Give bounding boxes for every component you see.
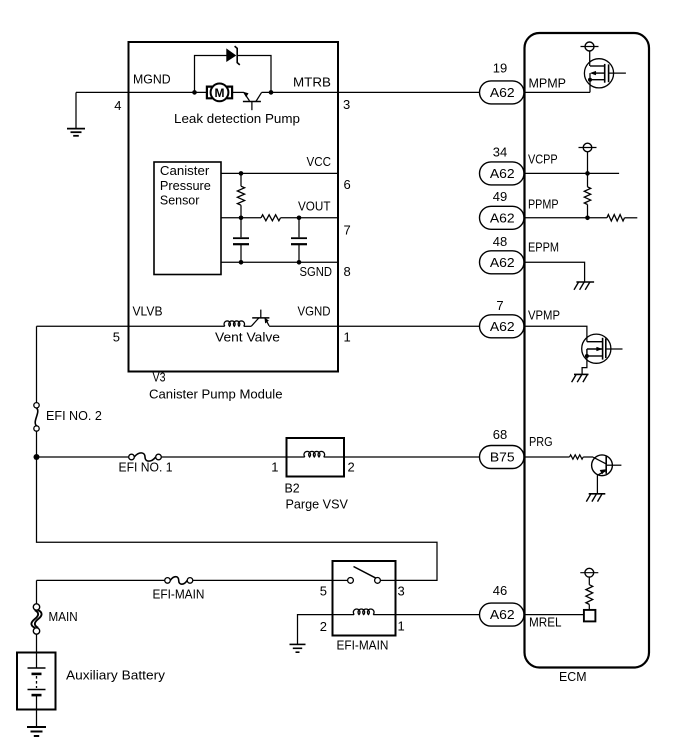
- svg-text:6: 6: [344, 177, 351, 192]
- wire MPMP inside: [525, 80, 591, 93]
- wire down to relay link: [37, 457, 438, 580]
- svg-text:49: 49: [493, 189, 507, 204]
- svg-text:46: 46: [493, 583, 507, 598]
- MOSFET Q3 (N-channel, VPMP): [582, 334, 623, 363]
- svg-text:EPPM: EPPM: [528, 240, 559, 255]
- label SGND: [300, 264, 333, 279]
- transistor Q4 (PRG driver): [592, 455, 622, 494]
- resistor R3 (VCPP pull-up): [584, 173, 590, 217]
- node VCC-R1: [239, 171, 244, 176]
- node SGND-C1: [239, 260, 244, 265]
- node motor left: [192, 90, 197, 95]
- svg-text:1: 1: [398, 619, 405, 634]
- svg-text:Leak detection Pump: Leak detection Pump: [174, 111, 300, 126]
- pin 49: [493, 189, 507, 204]
- pin 46: [493, 583, 507, 598]
- transistor Q1 (pump driver): [232, 92, 262, 110]
- label Auxiliary Battery: [66, 668, 166, 683]
- connector A62 pin 49 (PPMP): [480, 206, 525, 229]
- capacitor C1: [233, 218, 249, 262]
- svg-text:VLVB: VLVB: [133, 304, 163, 319]
- power supply (VCPP): [579, 143, 597, 173]
- power supply (MPMP): [581, 42, 599, 66]
- svg-text:VCPP: VCPP: [528, 152, 558, 167]
- pin 7 (V3 VOUT): [344, 223, 351, 238]
- svg-text:MPMP: MPMP: [529, 76, 567, 91]
- wire battery to EFI-MAIN fuse: [37, 579, 165, 581]
- svg-text:VOUT: VOUT: [298, 199, 331, 214]
- svg-text:A62: A62: [490, 85, 515, 100]
- svg-text:VCC: VCC: [307, 154, 332, 169]
- connector A62 pin 7 (VPMP): [480, 315, 525, 338]
- label EPPM: [528, 240, 559, 255]
- label EFI NO. 2: [46, 408, 102, 423]
- wire VLVB drop: [36, 326, 38, 402]
- svg-text:VPMP: VPMP: [528, 308, 560, 323]
- pin 68: [493, 427, 507, 442]
- svg-text:A62: A62: [490, 607, 515, 622]
- MOSFET Q2 (P-channel, MPMP): [584, 59, 626, 88]
- wire relay coil to ground: [298, 615, 333, 645]
- svg-text:MREL: MREL: [529, 615, 562, 630]
- label EFI-MAIN (fuse): [153, 587, 205, 602]
- label VLVB: [133, 304, 163, 319]
- svg-text:Auxiliary Battery: Auxiliary Battery: [66, 668, 166, 683]
- svg-text:A62: A62: [490, 255, 515, 270]
- wire SGND: [221, 261, 338, 263]
- svg-text:PRG: PRG: [529, 434, 553, 449]
- svg-text:EFI-MAIN: EFI-MAIN: [337, 638, 389, 653]
- battery cells: [28, 653, 46, 728]
- label MTRB: [293, 75, 331, 90]
- svg-text:PPMP: PPMP: [528, 197, 559, 212]
- connector A62 pin 19 (MPMP): [480, 81, 525, 104]
- wire PRG base: [583, 456, 593, 458]
- node VOUT-right: [297, 216, 302, 221]
- ground (VPMP): [572, 374, 589, 382]
- wire EPPM inside: [525, 262, 585, 282]
- wire PRG to VSV: [161, 456, 286, 458]
- svg-text:MAIN: MAIN: [49, 609, 78, 624]
- pin 2 (relay): [320, 619, 327, 634]
- pin 1 (B2): [271, 460, 278, 475]
- svg-text:EFI NO. 2: EFI NO. 2: [46, 408, 102, 423]
- svg-text:Pressure: Pressure: [160, 178, 211, 193]
- node PPMP: [585, 216, 590, 221]
- svg-text:19: 19: [493, 61, 507, 76]
- svg-text:SGND: SGND: [300, 264, 333, 279]
- label VPMP: [528, 308, 560, 323]
- wire PRG inside: [525, 456, 570, 458]
- battery box Auxiliary Battery: [17, 653, 56, 710]
- wire VOUT (sensor side): [221, 217, 261, 219]
- vent valve contact: [251, 310, 269, 327]
- svg-text:ECM: ECM: [559, 669, 587, 684]
- label MGND: [133, 72, 171, 87]
- label V3: [153, 370, 166, 385]
- svg-text:EFI NO. 1: EFI NO. 1: [119, 460, 173, 475]
- label EFI NO. 1: [119, 460, 173, 475]
- label Parge VSV: [286, 497, 349, 512]
- connector B75 pin 68 (PRG): [480, 446, 525, 469]
- pin 3 (relay): [398, 584, 405, 599]
- svg-text:A62: A62: [490, 319, 515, 334]
- svg-text:Parge VSV: Parge VSV: [286, 497, 349, 512]
- connector A62 pin 48 (EPPM): [480, 251, 525, 274]
- pin 5 (relay): [320, 584, 327, 599]
- ground (battery): [27, 727, 46, 736]
- pin 5 (V3 VLVB): [113, 330, 120, 345]
- svg-text:MGND: MGND: [133, 72, 171, 87]
- svg-text:4: 4: [114, 98, 121, 113]
- wire fuse to PRG node: [36, 431, 38, 457]
- wire PRG (left): [37, 456, 129, 458]
- wire VPMP source to ground: [582, 356, 587, 374]
- wire PPMP stub: [625, 217, 638, 219]
- fuse EFI NO. 2: [34, 403, 39, 432]
- label B2: [285, 481, 300, 496]
- label PPMP: [528, 197, 559, 212]
- sensor box Canister Pressure Sensor: [154, 162, 221, 275]
- svg-text:A62: A62: [490, 166, 515, 181]
- node PRG junction: [34, 454, 40, 460]
- svg-text:2: 2: [320, 619, 327, 634]
- svg-text:Sensor: Sensor: [160, 192, 200, 207]
- pin 1 (relay): [398, 619, 405, 634]
- svg-text:Vent Valve: Vent Valve: [215, 330, 280, 345]
- pin 7: [496, 298, 503, 313]
- svg-text:68: 68: [493, 427, 507, 442]
- svg-text:3: 3: [343, 97, 350, 112]
- ground (relay): [290, 644, 306, 652]
- ground (EPPM): [574, 282, 594, 290]
- wire MTRB to oval: [338, 91, 480, 93]
- wire MGND: [76, 91, 130, 93]
- wire MAIN drop: [36, 580, 38, 604]
- label VCPP: [528, 152, 558, 167]
- wire VCPP inside: [525, 172, 620, 174]
- svg-text:7: 7: [496, 298, 503, 313]
- relay box EFI-MAIN: [333, 561, 396, 636]
- wire PPMP inside: [525, 217, 607, 219]
- resistor R2 (VOUT series): [261, 215, 280, 221]
- label MAIN: [49, 609, 78, 624]
- svg-text:8: 8: [344, 264, 351, 279]
- resistor R6 (MREL): [586, 585, 593, 610]
- label Canister Pump Module: [149, 387, 283, 402]
- node VCPP: [585, 171, 590, 176]
- svg-text:Canister: Canister: [160, 163, 210, 178]
- svg-text:1: 1: [344, 330, 351, 345]
- pin 34: [493, 145, 507, 160]
- node VOUT-left: [239, 216, 244, 221]
- svg-text:3: 3: [398, 584, 405, 599]
- wire MTRB inside V3 (left): [130, 91, 207, 93]
- label PRG: [529, 434, 553, 449]
- pin 8 (V3 SGND): [344, 264, 351, 279]
- wire zener branch: [195, 56, 272, 93]
- svg-text:B2: B2: [285, 481, 300, 496]
- fusible link MAIN: [31, 604, 41, 634]
- pin 2 (B2): [348, 460, 355, 475]
- svg-text:48: 48: [493, 234, 507, 249]
- relay contact: [333, 567, 396, 584]
- wire relay to MREL oval: [396, 614, 480, 616]
- resistor R1 (sensor): [237, 173, 244, 217]
- motor M (leak detection pump): [207, 84, 232, 102]
- svg-text:1: 1: [271, 460, 278, 475]
- pin 4 (V3 MGND): [114, 98, 121, 113]
- valve box B2 Parge VSV: [287, 438, 345, 477]
- wire PRG to ECM: [344, 456, 480, 458]
- wire VPMP inside: [525, 326, 587, 341]
- svg-text:EFI-MAIN: EFI-MAIN: [153, 587, 205, 602]
- svg-text:V3: V3: [153, 370, 166, 385]
- ground (PRG): [586, 494, 605, 502]
- svg-text:5: 5: [320, 584, 327, 599]
- ground (MGND): [67, 92, 85, 135]
- label EFI-MAIN (relay): [337, 638, 389, 653]
- zener diode D1: [227, 46, 240, 65]
- label VGND: [298, 304, 331, 319]
- driver block (MREL): [584, 610, 596, 622]
- node SGND-C2: [297, 260, 302, 265]
- svg-text:7: 7: [344, 223, 351, 238]
- connector A62 pin 46 (MREL): [480, 603, 525, 626]
- inductor vent valve coil: [224, 321, 251, 326]
- pin 19: [493, 61, 507, 76]
- connector A62 pin 34 (VCPP): [480, 162, 525, 185]
- inductor purge VSV coil: [288, 451, 344, 457]
- wire MREL inside: [525, 614, 584, 616]
- pin 1 (V3 VGND): [344, 330, 351, 345]
- wire fuse to relay: [193, 579, 333, 581]
- power supply (MREL): [580, 568, 598, 584]
- label Leak detection Pump: [174, 111, 300, 126]
- label ECM: [559, 669, 587, 684]
- svg-text:Canister Pump Module: Canister Pump Module: [149, 387, 283, 402]
- node MTRB branch: [269, 90, 274, 95]
- resistor R4 (PPMP series): [607, 215, 625, 221]
- svg-text:M: M: [215, 86, 225, 100]
- svg-text:VGND: VGND: [298, 304, 331, 319]
- wire VCC: [221, 172, 338, 174]
- svg-text:5: 5: [113, 330, 120, 345]
- wire MAIN to battery: [36, 634, 38, 652]
- fuse EFI-MAIN: [165, 577, 193, 585]
- svg-text:34: 34: [493, 145, 507, 160]
- pin 3 (V3 MTRB): [343, 97, 350, 112]
- pin 48: [493, 234, 507, 249]
- relay coil: [333, 609, 396, 615]
- svg-text:B75: B75: [490, 450, 515, 465]
- wire VOUT (to pin 7): [281, 217, 339, 219]
- wire VGND: [269, 325, 479, 327]
- fuse EFI NO. 1: [129, 453, 162, 461]
- pin 6 (V3 VCC): [344, 177, 351, 192]
- svg-text:A62: A62: [490, 210, 515, 225]
- label VCC: [307, 154, 332, 169]
- svg-text:2: 2: [348, 460, 355, 475]
- label MREL: [529, 615, 562, 630]
- module box V3 Canister Pump Module: [129, 42, 339, 372]
- label Vent Valve: [215, 330, 280, 345]
- label MPMP: [529, 76, 567, 91]
- resistor R5 (PRG base): [570, 455, 584, 459]
- capacitor C2: [291, 218, 307, 262]
- label VOUT: [298, 199, 331, 214]
- svg-text:MTRB: MTRB: [293, 75, 331, 90]
- label Canister Pressure Sensor: [160, 163, 211, 207]
- ECM box: [525, 33, 650, 668]
- wire MTRB inside V3 (right): [262, 91, 338, 93]
- wire VLVB: [37, 325, 225, 327]
